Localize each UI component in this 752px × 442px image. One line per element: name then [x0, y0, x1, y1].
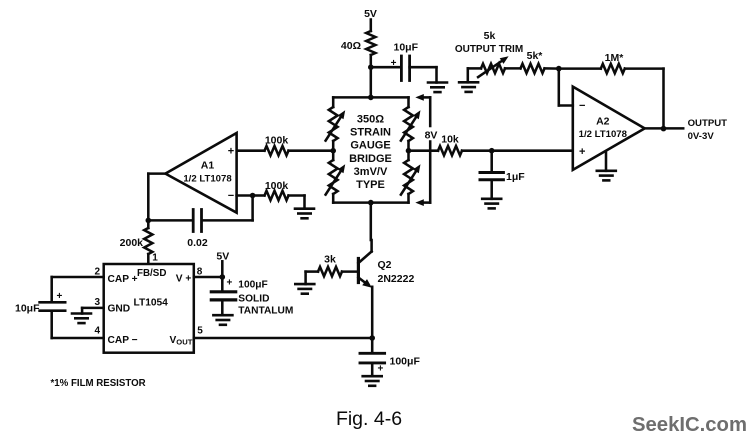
svg-text:GAUGE: GAUGE [350, 140, 390, 152]
bridge value label 350ohm strain gauge bridge 3mV/V type [349, 113, 392, 191]
svg-text:OUTPUT TRIM: OUTPUT TRIM [455, 44, 523, 55]
capacitor C 10&#956;F bypass [391, 42, 419, 81]
wire pin 2 CAP+ to flying cap [52, 277, 104, 301]
node bridge right mid [406, 141, 412, 160]
ground for lower 100k [295, 209, 314, 219]
node bridge top [368, 95, 374, 101]
wire A1 inverting input [237, 194, 253, 197]
svg-text:1/2 LT1078: 1/2 LT1078 [579, 129, 628, 140]
svg-text:1/2 LT1078: 1/2 LT1078 [183, 174, 232, 185]
svg-text:CAP +: CAP + [108, 274, 138, 285]
potentiometer 5k OUTPUT TRIM [478, 56, 509, 77]
ground for LT1054 pin 3 [72, 314, 91, 324]
wire node to lower 100k [253, 194, 265, 197]
wire 40ohm to junction [370, 55, 373, 67]
svg-text:+: + [227, 278, 233, 289]
svg-text:CAP −: CAP − [108, 335, 138, 346]
svg-text:+: + [391, 58, 397, 69]
wire inverting node down to 0.02 cap [202, 196, 253, 221]
wire 0.02 cap to A1 output node [148, 219, 193, 222]
svg-text:GND: GND [108, 304, 131, 315]
svg-text:SOLID: SOLID [238, 294, 269, 305]
pin 3 label [94, 297, 100, 308]
wire A2 inverting input [559, 69, 573, 106]
wire 1M* to output node [625, 69, 664, 129]
svg-text:5k*: 5k* [527, 50, 544, 62]
svg-text:1M*: 1M* [605, 52, 625, 64]
wire A1 output [148, 174, 165, 221]
svg-text:0V-3V: 0V-3V [688, 131, 715, 142]
strain gauge element left-bottom (variable resistor) [326, 160, 346, 195]
svg-text:10μF: 10μF [15, 302, 40, 314]
pin 5 label [197, 326, 203, 337]
op-amp A1 1/2 LT1078 [165, 133, 236, 213]
svg-text:3mV/V: 3mV/V [354, 166, 388, 178]
svg-text:STRAIN: STRAIN [350, 126, 391, 138]
pin 2 label [94, 267, 100, 278]
capacitor C 100&#956;F solid tantalum [211, 277, 235, 315]
capacitor C 0.02 (A1 feedback) [187, 210, 208, 250]
node junction supply/bypass [368, 64, 374, 70]
resistor R 3k [318, 254, 342, 277]
wire pin 8 V+ to 5V [194, 276, 223, 279]
wire flying cap to pin 4 [52, 312, 104, 338]
wire bridge top rail [333, 96, 408, 99]
svg-text:Fig. 4-6: Fig. 4-6 [336, 408, 402, 430]
node bridge bottom [368, 200, 374, 206]
wire A2 output [645, 127, 684, 130]
resistor R 1M* feedback [601, 52, 625, 73]
resistor R 5k* [521, 50, 545, 73]
strain gauge element right-top (variable resistor) [401, 107, 421, 141]
wire bridge left rail lower stub [332, 194, 335, 203]
node emitter / VOUT junction [369, 335, 375, 341]
resistor R 10k [438, 133, 462, 155]
svg-text:100μF: 100μF [390, 356, 421, 368]
caption Fig. 4-6 [336, 408, 402, 430]
svg-text:100k: 100k [265, 180, 289, 192]
svg-text:5k: 5k [484, 30, 496, 42]
svg-text:Q2: Q2 [378, 259, 392, 271]
svg-text:FB/SD: FB/SD [137, 268, 166, 279]
label 5V at LT1054 [216, 251, 229, 263]
wire 5V to 40ohm resistor [370, 20, 373, 32]
ground for 10uF bypass cap [428, 83, 447, 93]
capacitor C 10&#956;F flying [15, 291, 65, 314]
svg-text:+: + [579, 146, 585, 158]
wire bridge left rail upper stub [332, 97, 335, 107]
ground for 100uF tantalum [213, 315, 232, 325]
wire bridge right node to 10k [409, 149, 439, 152]
svg-text:10k: 10k [441, 133, 459, 145]
svg-text:VOUT: VOUT [170, 335, 193, 347]
svg-text:+: + [378, 363, 384, 374]
ground for output 100uF [363, 376, 382, 386]
wire node to A2 plus input [492, 149, 573, 152]
resistor R 100k (A1 inverting input to ground) [265, 180, 289, 200]
wire bridge left node to 100k [289, 149, 334, 152]
wire 5V down to V+ node [221, 261, 224, 277]
wire 3k to ground [306, 272, 318, 285]
svg-text:A2: A2 [596, 116, 610, 128]
watermark SeekIC.com [632, 414, 747, 436]
svg-text:3: 3 [94, 297, 100, 308]
svg-text:TANTALUM: TANTALUM [238, 305, 293, 316]
node A1 inverting input junction [250, 193, 256, 199]
wire pin 3 GND [82, 308, 104, 314]
svg-text:2N2222: 2N2222 [378, 273, 415, 285]
ground for 1uF cap [482, 199, 501, 209]
note *1% film resistor [51, 378, 146, 389]
node 5V supply rail [364, 8, 377, 20]
ground for A2 [597, 171, 616, 181]
svg-text:40Ω: 40Ω [341, 40, 361, 52]
strain gauge element left-top (variable resistor) [326, 107, 346, 141]
wire 200k to LT1054 pin 1 [148, 252, 158, 264]
svg-text:350Ω: 350Ω [357, 113, 384, 125]
wire A2 to ground [605, 153, 608, 171]
node A2 output [661, 126, 667, 132]
strain gauge element right-bottom (variable resistor) [401, 160, 421, 195]
wire pot to 5k* resistor [505, 67, 521, 70]
label OUTPUT 0V-3V [688, 118, 728, 142]
node V+ junction [220, 274, 226, 280]
svg-text:5V: 5V [364, 8, 377, 20]
IC U LT1054 charge pump [104, 264, 194, 353]
wire bridge right rail lower stub [407, 194, 410, 203]
wire 100k to A1 plus input [237, 149, 265, 152]
svg-text:−: − [579, 100, 585, 112]
svg-text:1: 1 [152, 252, 158, 263]
pin 1 wire already drawn; pin 8 label [197, 267, 203, 278]
wire 10k to node [462, 149, 492, 152]
capacitor C 100&#956;F output [360, 338, 420, 376]
wire pin 5 VOUT to Q2 emitter net [194, 337, 372, 340]
node A1 output / 200k junction [146, 218, 152, 224]
svg-text:3k: 3k [324, 254, 336, 266]
wire bridge bottom to Q2 collector [370, 203, 373, 252]
svg-text:BRIDGE: BRIDGE [349, 153, 392, 165]
wire bridge right rail upper stub [407, 97, 410, 107]
wire pot left end to ground [468, 68, 481, 82]
wire 10uF cap to ground [410, 67, 437, 82]
svg-text:A1: A1 [201, 160, 215, 172]
svg-text:LT1054: LT1054 [134, 297, 169, 308]
ground for 5k output trim pot [459, 82, 478, 92]
svg-text:4: 4 [94, 326, 100, 337]
svg-text:+: + [228, 146, 234, 158]
svg-text:+: + [57, 291, 63, 302]
transistor Q2 2N2222 [358, 252, 414, 288]
resistor R 40&#937; [341, 31, 376, 55]
svg-text:V +: V + [176, 274, 192, 285]
svg-text:*1% FILM RESISTOR: *1% FILM RESISTOR [51, 378, 146, 389]
svg-text:1μF: 1μF [506, 171, 525, 183]
svg-text:10μF: 10μF [394, 42, 419, 54]
svg-text:SeekIC.com: SeekIC.com [632, 414, 747, 436]
resistor R 200k [120, 228, 153, 254]
svg-text:200k: 200k [120, 237, 144, 249]
wire 100k to ground [289, 196, 305, 209]
svg-text:TYPE: TYPE [356, 179, 385, 191]
node 8V bracket (bridge excitation annotation) [415, 94, 437, 206]
svg-text:0.02: 0.02 [187, 237, 208, 249]
wire A2 plus input stub [492, 150, 573, 152]
capacitor C 1&#956;F filter [480, 151, 525, 199]
node A2 noninverting input net [489, 148, 495, 154]
svg-text:−: − [228, 190, 234, 202]
svg-text:5: 5 [197, 326, 203, 337]
wire Q2 emitter down [371, 287, 374, 338]
svg-text:8V: 8V [425, 129, 438, 141]
resistor R 100k (A1 noninverting input) [265, 135, 289, 156]
wire junction to 10uF cap [371, 66, 401, 69]
svg-text:OUTPUT: OUTPUT [688, 118, 728, 129]
label 100uF SOLID TANTALUM [238, 279, 293, 316]
label 5k OUTPUT TRIM [455, 30, 523, 55]
wire Q2 base to 3k [342, 270, 359, 273]
pin 4 label [94, 326, 100, 337]
wire 5k* to feedback junction [545, 67, 559, 70]
wire bridge bottom rail [333, 201, 408, 204]
svg-text:100k: 100k [265, 135, 289, 147]
wire junction down to bridge top [370, 67, 373, 97]
wire feedback junction to 1M* [559, 67, 601, 70]
node bridge left mid [330, 141, 336, 160]
svg-text:100μF: 100μF [238, 279, 267, 290]
node feedback junction [556, 66, 562, 72]
ground for 3k [295, 284, 314, 294]
wire junction to 200k [147, 220, 150, 228]
op-amp A2 1/2 LT1078 [573, 87, 645, 170]
